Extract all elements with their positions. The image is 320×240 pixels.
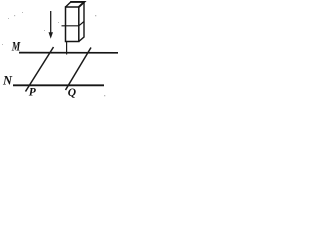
block right side face: [79, 2, 84, 42]
line M (upper horizontal rail): [19, 52, 118, 54]
block division between the two cubes: [62, 22, 85, 26]
slanted line Q (right diagonal of parallelogram): [66, 48, 92, 91]
down arrow (falling direction): [49, 11, 54, 39]
svg-text:N: N: [2, 73, 13, 87]
plumb line from block bottom through rail M: [66, 42, 68, 55]
svg-text:Q: Q: [68, 87, 76, 99]
block: 3D cuboid of two stacked cubes: [62, 2, 85, 42]
block top face: [66, 2, 71, 7]
svg-text:M: M: [11, 39, 21, 53]
block front face: [66, 7, 79, 42]
svg-text:P: P: [29, 86, 37, 98]
scan speckles: [2, 12, 105, 96]
line N (lower horizontal rail): [13, 84, 104, 86]
slanted line P (left diagonal of parallelogram): [26, 47, 54, 92]
